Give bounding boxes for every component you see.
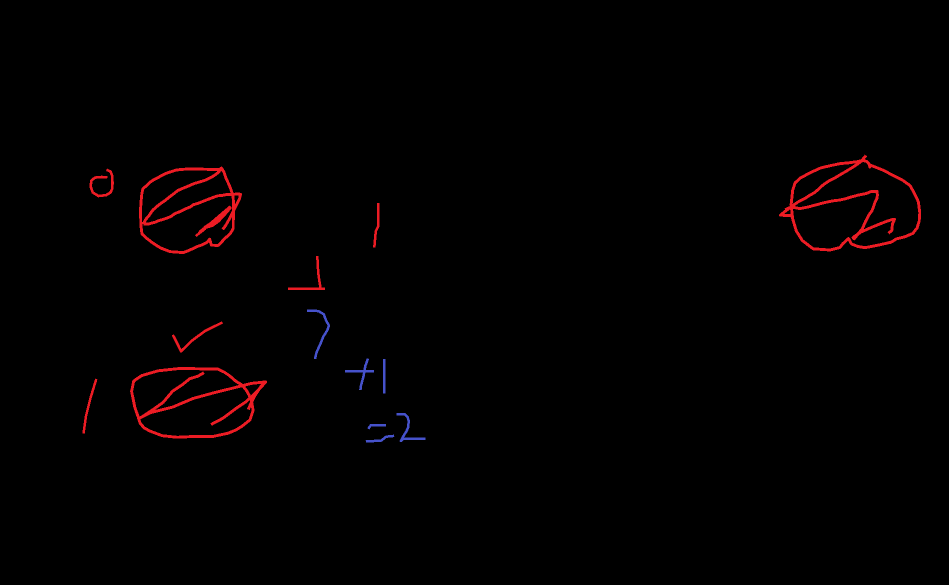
- oval inner diagonal lower with right tip: [139, 382, 266, 418]
- red perpendicular T mark: horizontal bar: [288, 256, 325, 289]
- small red o mark: [91, 170, 113, 196]
- blue plus sign: horizontal: [345, 359, 384, 394]
- blue digit 2: [396, 414, 425, 441]
- blue approx equals: top stroke: [366, 414, 426, 441]
- red scribbled circle top-left: outline: [141, 167, 241, 252]
- red slash lower-left: [84, 379, 97, 434]
- circle 1 arrow lower tail stroke: [196, 229, 206, 237]
- blue plus sign: slanted vertical: [360, 359, 368, 390]
- circle 1 inner diagonal upper: [143, 167, 222, 224]
- blue question-7 mark: [307, 311, 329, 359]
- red oval lower-left: outline: [132, 368, 266, 437]
- right scribble long slash down to left tip with flat hook: [781, 156, 867, 217]
- right scribble inner rise line to peak and zigzag: [785, 191, 894, 239]
- red perpendicular T mark: vertical stem: [317, 256, 320, 288]
- oval short inner stroke: [211, 385, 263, 424]
- circle 1 thick arrow scribble (tapered fill): [196, 207, 231, 237]
- blue digit 1: [383, 359, 386, 394]
- red vertical stroke above T: [374, 203, 378, 248]
- blue approx equals: bottom stroke: [366, 436, 394, 442]
- big red scribble right: outline: [781, 156, 920, 251]
- circle 1 arrow zigzag tail: [198, 228, 204, 235]
- red checkmark: [173, 322, 223, 351]
- oval inner diagonal upper: [142, 373, 204, 417]
- circle 1 inner diagonal lower with right tip and descent: [143, 194, 240, 230]
